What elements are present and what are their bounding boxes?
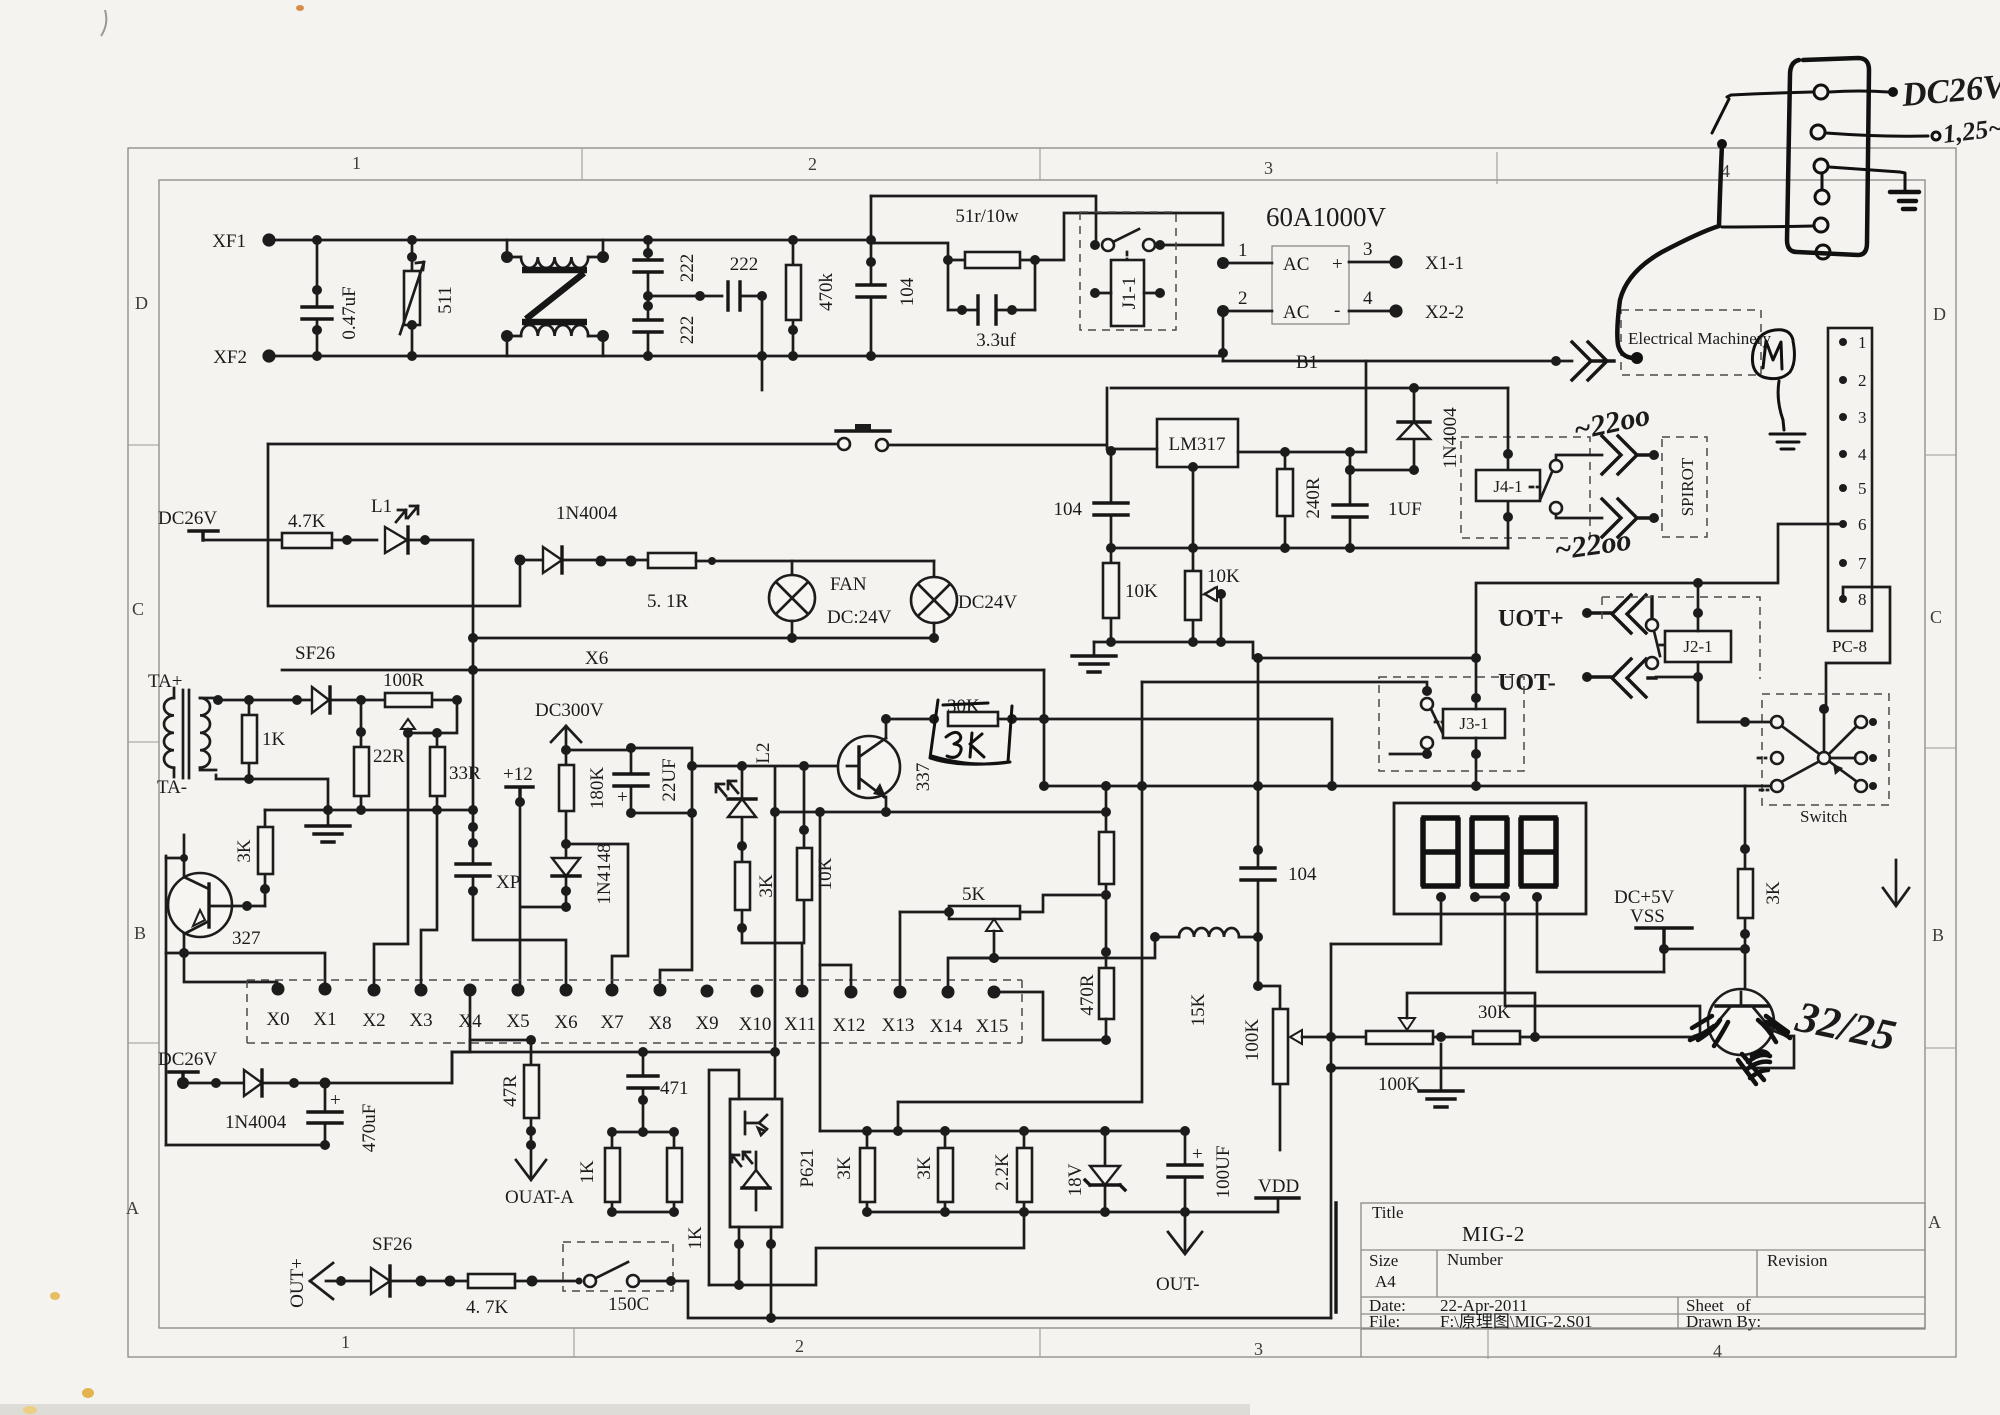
wire mid column lower: [1330, 944, 1333, 1318]
svg-text:X13: X13: [882, 1015, 915, 1036]
zone tick right D|C: [1925, 454, 1956, 456]
svg-text:DC26V: DC26V: [158, 508, 217, 529]
wire 470uF ground row: [166, 1144, 325, 1147]
svg-text:100UF: 100UF: [1213, 1146, 1234, 1199]
svg-text:511: 511: [435, 286, 456, 314]
svg-text:AC: AC: [1283, 254, 1309, 275]
svg-text:3: 3: [1254, 1339, 1263, 1359]
zone tick top 1|2: [581, 148, 583, 180]
wire X11 riser: [801, 943, 804, 991]
node XF1 terminal: [262, 233, 275, 246]
svg-text:7: 7: [1858, 554, 1867, 573]
terminal X0: [272, 983, 285, 996]
terminal X6: [560, 984, 573, 997]
wire top link to fuse row: [871, 196, 1096, 244]
chevron connector spirot lower: [1602, 499, 1652, 537]
svg-text:100K: 100K: [1242, 1019, 1263, 1062]
wire switch bottom rail join: [1745, 785, 1771, 788]
wire 337 emitter row: [775, 797, 1106, 812]
svg-text:2.2K: 2.2K: [992, 1153, 1013, 1191]
zone tick top 2|3: [1039, 148, 1041, 180]
svg-text:1N4004: 1N4004: [556, 503, 618, 524]
node XF2 terminal: [262, 349, 275, 362]
svg-text:30K: 30K: [947, 696, 980, 717]
svg-text:60A1000V: 60A1000V: [1266, 202, 1386, 232]
svg-text:104: 104: [897, 277, 918, 306]
svg-text:LM317: LM317: [1169, 434, 1226, 455]
wire 327 emitter to X0: [166, 934, 277, 982]
wire display pin3: [1505, 897, 1700, 1035]
wire X3 riser: [421, 810, 437, 990]
wire LM317 input row: [1111, 448, 1157, 451]
wire 100K wiper row: [1331, 1036, 1694, 1039]
svg-text:VDD: VDD: [1258, 1176, 1299, 1197]
svg-text:XF1: XF1: [212, 231, 246, 252]
potentiometer 100R: [383, 670, 462, 747]
wire led bottom row: [742, 900, 804, 943]
svg-text:B: B: [134, 923, 146, 943]
capacitor 104 input: [857, 196, 918, 361]
potentiometer 100K vertical: [1242, 986, 1331, 1150]
svg-text:Size: Size: [1369, 1251, 1398, 1270]
resistor 3K right: [1738, 786, 1784, 992]
zone tick bottom 2|3: [1039, 1328, 1041, 1357]
svg-text:30K: 30K: [1478, 1002, 1511, 1023]
svg-text:3.3uf: 3.3uf: [976, 330, 1016, 351]
svg-text:Switch: Switch: [1800, 807, 1848, 826]
choke core Z bar: [522, 270, 587, 322]
svg-text:SF26: SF26: [372, 1234, 412, 1255]
capacitor 22UF: [614, 743, 680, 818]
wire 150C output: [639, 1281, 1331, 1318]
lamp DC24V: [911, 561, 1017, 638]
svg-text:471: 471: [660, 1078, 689, 1099]
wire X12 riser: [820, 965, 851, 992]
capacitor 1UF: [1333, 452, 1422, 548]
svg-text:MIG-2: MIG-2: [1462, 1222, 1525, 1246]
resistor 240R: [1277, 452, 1324, 548]
svg-text:150C: 150C: [608, 1294, 649, 1315]
dashed box X terminals: [247, 980, 1022, 1043]
capacitor 100UF: [1168, 1131, 1234, 1217]
relay contacts J4-1: [1530, 455, 1602, 518]
wire LED loop left: [268, 444, 520, 638]
svg-text:5K: 5K: [962, 884, 986, 905]
wire X15 link: [994, 992, 1106, 1040]
relay coil J3-1: [1443, 709, 1505, 738]
hand-drawn connector pin 5: [1814, 218, 1828, 232]
zone tick left C|B: [128, 741, 159, 743]
resistor 5.1R: [647, 553, 934, 612]
svg-text:4. 7K: 4. 7K: [466, 1297, 509, 1318]
terminal X5: [512, 984, 525, 997]
zone tick right B|A: [1925, 1047, 1956, 1049]
svg-text:OUT+: OUT+: [287, 1258, 308, 1308]
inductor 15K: [994, 928, 1263, 1026]
wire X1 riser: [184, 953, 325, 989]
svg-text:+: +: [330, 1090, 341, 1111]
wire 1N4148 node to X7: [566, 844, 628, 990]
wire tall mid column: [898, 682, 1142, 1102]
capacitor 222 series horizontal: [648, 254, 767, 390]
svg-text:5. 1R: 5. 1R: [647, 591, 689, 612]
svg-text:SF26: SF26: [295, 643, 335, 664]
terminal X1: [319, 983, 332, 996]
svg-text:-: -: [1334, 300, 1340, 321]
svg-text:X5: X5: [506, 1011, 529, 1032]
wire emitter riser junction: [815, 807, 825, 817]
terminal X13: [894, 986, 907, 999]
wire UOT- to J2-1: [1656, 676, 1698, 679]
svg-text:51r/10w: 51r/10w: [955, 206, 1019, 227]
lamp FAN: [769, 561, 892, 638]
wire display pin1: [1331, 897, 1441, 944]
contact UOT lower: [1646, 657, 1658, 669]
svg-text:337: 337: [913, 763, 934, 792]
diode SF26: [312, 687, 330, 713]
zone tick bottom 1|2: [573, 1328, 575, 1357]
svg-text:470R: 470R: [1077, 974, 1098, 1016]
wire XP column: [473, 638, 566, 990]
capacitor 222 upper: [634, 235, 698, 296]
wire bridge pin3 to X1-1: [1349, 261, 1396, 264]
svg-text:6: 6: [1858, 515, 1867, 534]
svg-text:TA+: TA+: [148, 671, 183, 692]
wire X4 drop: [452, 990, 470, 1083]
svg-text:+: +: [617, 787, 628, 808]
svg-text:X11: X11: [784, 1014, 816, 1035]
resistor 30K bottom: [1473, 1002, 1520, 1044]
wire thick title edge: [1334, 1203, 1337, 1312]
zone tick left B|A: [128, 1042, 159, 1044]
svg-text:D: D: [1933, 304, 1946, 324]
svg-text:3K: 3K: [756, 874, 777, 898]
svg-text:104: 104: [1054, 499, 1083, 520]
terminal X15: [988, 986, 1001, 999]
wire LM317 top rail: [1111, 387, 1508, 390]
wire bottom VDD rail: [867, 1198, 1278, 1212]
wire XF1 row: [269, 239, 871, 242]
svg-text:Drawn By:: Drawn By:: [1686, 1312, 1761, 1331]
svg-text:+: +: [1332, 254, 1343, 275]
zone tick left D|C: [128, 444, 159, 446]
svg-text:L2: L2: [753, 742, 774, 763]
dashed box rotary switch: [1762, 694, 1889, 805]
svg-text:1K: 1K: [685, 1226, 706, 1250]
wire X2 riser: [374, 733, 408, 990]
hand wire main drop to motor line: [1617, 144, 1722, 358]
svg-text:3: 3: [1264, 158, 1273, 178]
capacitor 104 regulator: [1054, 451, 1129, 548]
ground under 100K: [1419, 1032, 1463, 1107]
wire switch feed left: [1698, 721, 1771, 724]
wire DC26V to resistor: [203, 539, 282, 542]
svg-text:VSS: VSS: [1630, 906, 1665, 927]
svg-text:X1-1: X1-1: [1425, 253, 1464, 274]
svg-text:L1: L1: [371, 496, 392, 517]
hand-drawn connector pin 4: [1815, 190, 1829, 204]
capacitor 470uF: [308, 1083, 380, 1152]
diode 1N4004 fan: [515, 503, 649, 573]
hand wire pin5 left: [1722, 226, 1813, 227]
wire TA- row: [216, 775, 328, 810]
optocoupler P621: [709, 1070, 818, 1285]
chevron connector spirot upper: [1602, 436, 1652, 474]
resistor 33R: [430, 747, 481, 810]
resistor 47R: [500, 1035, 539, 1150]
relay contacts J3-1: [1421, 686, 1447, 759]
svg-text:XP: XP: [496, 872, 520, 893]
relay blade J2-1: [1654, 631, 1660, 656]
resistor upper 1106: [1099, 786, 1114, 968]
connector PC-8: [1828, 328, 1872, 656]
hand-drawn connector block: [1787, 58, 1869, 255]
svg-text:X15: X15: [976, 1016, 1009, 1037]
terminal X7: [606, 984, 619, 997]
power arrow DC300V: [551, 726, 581, 750]
wire DC26V lower row: [183, 1052, 452, 1083]
dashed box Electrical Machinery: [1621, 310, 1761, 375]
hand-drawn connector pin 2: [1811, 125, 1825, 139]
hand-drawn connector pin 6: [1816, 245, 1830, 259]
svg-text:47R: 47R: [500, 1075, 521, 1107]
ground TA block: [306, 810, 350, 842]
wire PC-8 pin8 to switch: [1826, 587, 1890, 709]
svg-text:3K: 3K: [1763, 881, 1784, 905]
svg-text:33R: 33R: [449, 763, 481, 784]
arrow OUT-: [1168, 1212, 1202, 1254]
wire J3-1 lower contact stub: [1390, 753, 1427, 756]
svg-text:1K: 1K: [262, 729, 286, 750]
resistor 1K left: [577, 1127, 620, 1217]
svg-text:PC-8: PC-8: [1832, 637, 1867, 656]
wire 22UF rails: [566, 748, 692, 990]
capacitor 222 lower: [634, 291, 698, 361]
resistor 180K: [559, 750, 608, 844]
arrow OUAT-A: [516, 1145, 546, 1180]
svg-text:DC26V: DC26V: [158, 1049, 217, 1070]
wire display pin4: [1537, 897, 1664, 972]
scribble arrows on transistor: [1690, 1016, 1728, 1046]
wire J3-1 contact feed: [1142, 682, 1427, 691]
relay coil J4-1: [1461, 388, 1590, 548]
power tick DC26V lower: [169, 1072, 198, 1083]
wire P621 pins: [739, 1227, 771, 1244]
svg-text:OUT-: OUT-: [1156, 1274, 1200, 1295]
diode 1N4004 regulator: [1345, 383, 1461, 475]
svg-text:X8: X8: [648, 1013, 671, 1034]
svg-text:X0: X0: [266, 1009, 289, 1030]
svg-text:OUAT-A: OUAT-A: [505, 1187, 574, 1208]
svg-text:3K: 3K: [234, 839, 255, 863]
svg-text:+12: +12: [503, 764, 533, 785]
resistor 3K led: [735, 846, 777, 933]
terminal X8: [654, 984, 667, 997]
wire left feeder column: [165, 856, 168, 1145]
svg-text:J2-1: J2-1: [1683, 637, 1712, 656]
svg-text:5: 5: [1858, 479, 1867, 498]
svg-text:327: 327: [232, 928, 261, 949]
svg-text:1N4148: 1N4148: [594, 843, 615, 904]
svg-text:100K: 100K: [1378, 1074, 1421, 1095]
wire X14 riser: [948, 958, 994, 992]
svg-text:J3-1: J3-1: [1459, 714, 1488, 733]
svg-text:15K: 15K: [1188, 993, 1209, 1026]
capacitor 0.47uF: [302, 235, 360, 361]
chevron UOT+: [1587, 595, 1652, 633]
svg-text:X9: X9: [695, 1013, 718, 1034]
svg-text:3: 3: [1363, 239, 1373, 260]
resistor 4.7K: [282, 511, 377, 548]
transformer TA current sensor: [164, 688, 216, 778]
potentiometer 100K horizontal: [1366, 993, 1535, 1095]
svg-text:X2-2: X2-2: [1425, 302, 1464, 323]
power bar VSS: [1636, 928, 1692, 949]
svg-text:2: 2: [1238, 288, 1248, 309]
resistor 30K handwritten 3K: [929, 696, 1332, 786]
svg-text:A: A: [126, 1198, 139, 1218]
outer border frame: [128, 148, 1956, 1357]
handwritten motor M: [1752, 330, 1794, 379]
zone tick right C|B: [1925, 747, 1956, 749]
svg-text:8: 8: [1858, 590, 1867, 609]
svg-text:Number: Number: [1447, 1250, 1503, 1269]
wire 471 top rail: [452, 1051, 775, 1054]
pushbutton switch: [836, 424, 890, 451]
resistor 10K fixed: [1103, 548, 1158, 642]
svg-text:+: +: [1192, 1144, 1203, 1165]
svg-text:222: 222: [677, 254, 698, 283]
arrow down zone B: [1883, 860, 1909, 906]
svg-text:4: 4: [1858, 445, 1867, 464]
svg-text:X12: X12: [833, 1015, 866, 1036]
hand wire pin1 left with switch: [1727, 92, 1812, 97]
scribble blob: [1738, 1051, 1770, 1084]
svg-text:1: 1: [1858, 333, 1867, 352]
wire TA+ row: [216, 699, 457, 702]
rotary switch contacts: [1758, 704, 1877, 792]
wire 47R top link: [452, 1040, 531, 1052]
transistor 337: [838, 736, 934, 798]
power bar VDD: [1256, 1196, 1299, 1199]
dashed box J3-1: [1379, 677, 1524, 771]
svg-text:C: C: [1930, 607, 1942, 627]
terminal X9: [701, 985, 714, 998]
svg-text:1: 1: [341, 1332, 350, 1352]
resistor 22R: [354, 700, 405, 810]
wire mid long rail: [1044, 785, 1745, 788]
seven segment display module: [1394, 803, 1586, 914]
resistor 470k: [786, 235, 837, 361]
resistor 4.7K output: [466, 1274, 579, 1318]
chevron UOT-: [1587, 659, 1656, 697]
svg-text:3K: 3K: [834, 1156, 855, 1180]
svg-text:J1-1: J1-1: [1119, 277, 1140, 310]
svg-text:3K: 3K: [914, 1156, 935, 1180]
hand wire pin1 to DC26V: [1829, 91, 1888, 92]
svg-text:1N4004: 1N4004: [225, 1112, 287, 1133]
relay coil J2-1: [1665, 631, 1731, 662]
diode 1N4148: [552, 839, 615, 912]
svg-text:0.47uF: 0.47uF: [339, 286, 360, 339]
paper speck 1: [50, 1292, 60, 1300]
svg-text:1: 1: [352, 153, 361, 173]
paper speck 3: [23, 1406, 37, 1414]
resistor 10K mid: [797, 766, 836, 900]
svg-text:Electrical Machinery: Electrical Machinery: [1628, 329, 1772, 348]
inductor common-mode choke bottom winding: [501, 325, 609, 356]
svg-text:4: 4: [1713, 1341, 1722, 1361]
svg-text:1N4004: 1N4004: [1440, 407, 1461, 469]
wire X13 riser: [899, 912, 902, 992]
hand ground top right: [1890, 192, 1919, 209]
varistor 511: [400, 235, 456, 361]
svg-text:UOT+: UOT+: [1498, 606, 1564, 632]
hand ground under motor: [1770, 434, 1805, 449]
svg-text:3: 3: [1858, 408, 1867, 427]
svg-text:X1: X1: [313, 1009, 336, 1030]
resistor 51r/10w: [943, 206, 1040, 268]
wire regulator bottom rail: [1108, 547, 1508, 550]
hand wire pin2 to 1.25~26: [1826, 133, 1928, 136]
dashed box SPIROT: [1662, 437, 1707, 537]
wire 327 collector: [166, 835, 184, 877]
paper speck 2: [82, 1388, 94, 1398]
wire motor feed line: [1223, 360, 1572, 363]
capacitor 3.3uf: [948, 296, 1035, 351]
terminal X3: [415, 984, 428, 997]
capacitor 471: [628, 1052, 689, 1105]
svg-text:DC24V: DC24V: [958, 592, 1017, 613]
zone tick top 3|4: [1496, 152, 1498, 184]
resistor 470R: [1077, 968, 1114, 1045]
hand-drawn connector pin 1: [1814, 85, 1828, 99]
resistor 3K b: [914, 1131, 953, 1217]
wire J2-1 column: [1697, 583, 1700, 722]
hand box around 3K: [930, 700, 1012, 764]
thermal switch 150C: [563, 1242, 673, 1315]
svg-text:DC300V: DC300V: [535, 700, 604, 721]
wire lower spreader row: [265, 809, 473, 812]
wire X6 bus: [282, 669, 1044, 672]
potentiometer 10K: [1185, 548, 1240, 642]
wire pushbutton row: [268, 388, 1107, 449]
handwriting 3K: [946, 732, 984, 757]
wire PC-8 pin6 feed: [1476, 524, 1843, 658]
svg-text:X10: X10: [739, 1014, 772, 1035]
svg-text:C: C: [132, 599, 144, 619]
LED optocoupler input: [716, 766, 756, 851]
capacitor XP: [456, 864, 520, 893]
svg-text:2: 2: [795, 1336, 804, 1356]
resistor 2.2K: [992, 1131, 1032, 1217]
wire X6 bus drop: [1043, 670, 1046, 786]
wire +12 column to X5: [520, 796, 566, 990]
svg-text:X6: X6: [585, 648, 608, 669]
dashed box J2-1: [1602, 597, 1760, 679]
svg-text:B: B: [1932, 925, 1944, 945]
transistor 32/25 power: [1694, 989, 1786, 1055]
svg-text:P621: P621: [797, 1148, 818, 1187]
diode 1N4004 lower: [225, 1070, 287, 1133]
svg-text:X14: X14: [930, 1016, 963, 1037]
chevron connector to motor: [1572, 342, 1614, 380]
svg-text:222: 222: [677, 316, 698, 345]
svg-text:180K: 180K: [587, 767, 608, 810]
svg-text:1: 1: [1238, 240, 1248, 261]
svg-text:Title: Title: [1372, 1203, 1404, 1222]
resistor 1K right: [667, 1127, 706, 1250]
